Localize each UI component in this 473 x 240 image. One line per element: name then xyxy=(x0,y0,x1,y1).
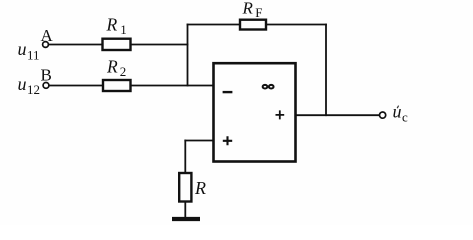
svg-text:R: R xyxy=(106,57,118,77)
svg-text:R: R xyxy=(106,15,118,35)
svg-text:u: u xyxy=(393,102,402,122)
svg-text:R: R xyxy=(242,0,254,18)
svg-text:2: 2 xyxy=(120,64,127,79)
svg-text:R: R xyxy=(194,178,206,198)
svg-text:11: 11 xyxy=(27,48,40,63)
svg-text:1: 1 xyxy=(120,22,127,37)
svg-text:u: u xyxy=(18,39,27,59)
svg-text:A: A xyxy=(41,26,54,45)
svg-text:B: B xyxy=(41,66,52,85)
svg-text:u: u xyxy=(18,74,27,94)
svg-text:c: c xyxy=(402,110,408,125)
svg-text:12: 12 xyxy=(27,82,40,97)
svg-text:F: F xyxy=(255,5,262,20)
